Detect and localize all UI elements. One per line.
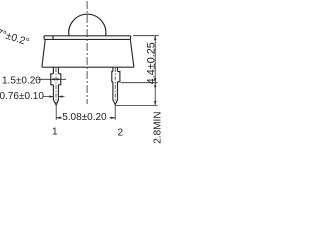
lead 2 narrow upper bbox=[113, 67, 118, 71]
svg-text:2.8MIN: 2.8MIN bbox=[152, 111, 163, 143]
body left edge bbox=[42, 39, 45, 67]
arrowhead 1.5 left bbox=[51, 78, 55, 80]
extension line lead tip bbox=[115, 104, 157, 106]
svg-text:1: 1 bbox=[52, 126, 58, 137]
centerline vertical axis bbox=[86, 1, 88, 104]
svg-text:2: 2 bbox=[118, 128, 124, 139]
body bottom line bbox=[42, 66, 134, 68]
svg-text:1.5±0.20: 1.5±0.20 bbox=[2, 75, 41, 86]
dim 5.08 line bbox=[56, 117, 115, 119]
lead 1 centerline bbox=[55, 68, 57, 103]
svg-text:4.4±0.25: 4.4±0.25 bbox=[145, 42, 157, 84]
lead 2 centerline bbox=[114, 68, 116, 102]
dim leader 1.5 bbox=[38, 78, 67, 80]
dim line 2.8 bbox=[154, 83, 156, 106]
dim line 4.4 bbox=[154, 36, 156, 83]
arrowhead 2.8 bottom bbox=[154, 101, 156, 105]
dim leader 0.76 bbox=[43, 96, 65, 98]
lead 1 narrow lower and tip bbox=[53, 85, 58, 105]
svg-text:5.08±0.20: 5.08±0.20 bbox=[62, 112, 107, 123]
arrowhead 4.4 bottom bbox=[154, 78, 156, 82]
arrowhead 4.4 top bbox=[154, 36, 156, 40]
lead 1 tab bbox=[51, 74, 61, 85]
arrowhead 0.76 right bbox=[58, 95, 62, 97]
dim 5.08 extension hooks bbox=[56, 105, 115, 120]
lead 2 narrow lower and tip bbox=[113, 82, 118, 105]
flange outline bbox=[44, 36, 131, 40]
extension line seating plane bbox=[121, 82, 158, 84]
svg-text:0.76±0.10: 0.76±0.10 bbox=[0, 91, 44, 102]
lead 1 narrow upper bbox=[53, 67, 58, 74]
arrowhead 5.08 right bbox=[111, 117, 115, 119]
flange flat tick bbox=[52, 36, 54, 40]
arrowhead 5.08 left bbox=[56, 117, 60, 119]
arrowhead 2.8 top bbox=[154, 83, 156, 87]
arrowhead 0.76 left bbox=[49, 95, 53, 97]
dome lens arc bbox=[69, 14, 106, 36]
arrowhead 1.5 right bbox=[57, 78, 61, 80]
lead 2 tab bbox=[112, 72, 120, 82]
body right edge bbox=[130, 39, 134, 67]
extension line flange top bbox=[133, 35, 159, 37]
